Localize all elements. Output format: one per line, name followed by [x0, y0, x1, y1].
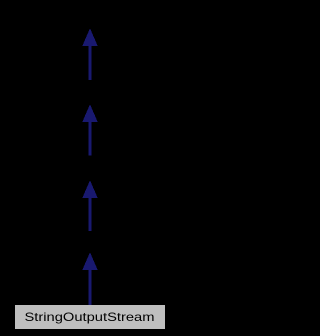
arrow 4 shaft	[89, 268, 92, 305]
inheritance diagram canvas	[0, 0, 180, 336]
arrow 2 head	[83, 106, 96, 122]
inheritance arrow 2	[83, 106, 96, 156]
inheritance arrow 4 (into StringOutputStream box)	[83, 254, 96, 305]
node fill	[15, 305, 165, 329]
arrow 1 head	[83, 30, 96, 46]
arrow 3 shaft	[89, 196, 92, 231]
arrow 1 shaft	[89, 44, 92, 80]
node border	[14, 304, 166, 330]
inheritance arrow 1 (topmost)	[83, 30, 96, 80]
inheritance arrow 3	[83, 182, 96, 231]
arrow 3 head	[83, 182, 96, 198]
arrow 2 shaft	[89, 120, 92, 156]
node StringOutputStream	[14, 304, 166, 330]
arrow 4 head	[83, 254, 96, 270]
svg-text:StringOutputStream: StringOutputStream	[25, 310, 155, 324]
